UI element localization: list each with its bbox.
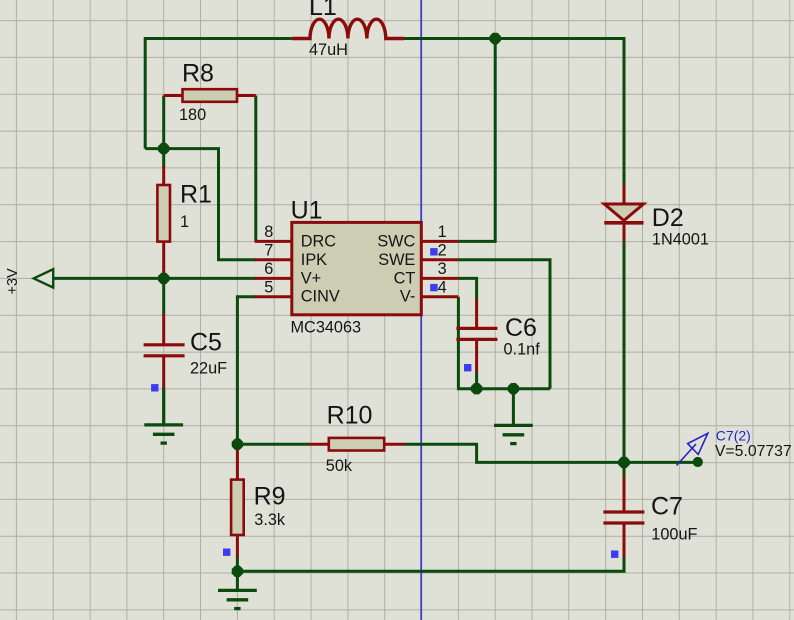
wire C5 top bbox=[162, 278, 165, 314]
junction node CINV/R10/R9 bbox=[232, 439, 243, 450]
svg-text:CINV: CINV bbox=[301, 288, 340, 306]
+3V power arrow bbox=[34, 269, 54, 287]
svg-text:V-: V- bbox=[400, 288, 415, 306]
wire +3V rail bbox=[53, 277, 257, 280]
ground under R9 bbox=[236, 571, 239, 590]
svg-text:180: 180 bbox=[179, 106, 206, 124]
junction node output/C7 bbox=[618, 457, 629, 468]
pin 6 V+ bbox=[255, 277, 292, 280]
svg-text:100uF: 100uF bbox=[651, 525, 697, 543]
wire D2 bottom to output junction bbox=[623, 241, 626, 463]
svg-text:C7(2): C7(2) bbox=[716, 428, 751, 444]
pin 5 CINV bbox=[255, 295, 292, 298]
junction node R9/bottom rail bbox=[232, 566, 243, 577]
wire R1 bottom to +3V junction bbox=[162, 266, 165, 278]
wire R8 left drop bbox=[162, 96, 165, 151]
resistor R1 bbox=[162, 166, 165, 185]
svg-text:C5: C5 bbox=[190, 329, 222, 357]
svg-text:V+: V+ bbox=[301, 269, 321, 287]
C7 marker bbox=[611, 551, 618, 558]
resistor R10 bbox=[309, 443, 329, 446]
wire R1 top stub bbox=[162, 149, 165, 167]
wire top rail right of L1 bbox=[404, 39, 624, 187]
wire pin3 to C6 bbox=[458, 278, 476, 300]
svg-text:C6: C6 bbox=[505, 314, 537, 342]
resistor R8 bbox=[164, 94, 183, 97]
svg-text:1N4001: 1N4001 bbox=[652, 231, 709, 249]
svg-text:R8: R8 bbox=[182, 60, 214, 88]
svg-text:CT: CT bbox=[394, 269, 416, 287]
wire pin1 to top junction bbox=[458, 39, 495, 242]
wire R8 right drop to pin 8 bbox=[254, 96, 257, 242]
wire junction row to pin7 elbow bbox=[145, 149, 256, 260]
svg-text:DRC: DRC bbox=[301, 233, 337, 251]
pin 4 V- bbox=[421, 295, 458, 298]
ground under C6 rail bbox=[512, 389, 515, 426]
voltage probe C7(2) bbox=[693, 457, 703, 467]
wire pin2 to ground rail bbox=[458, 260, 550, 389]
wire R10 left bbox=[237, 443, 309, 446]
svg-text:L1: L1 bbox=[309, 0, 337, 21]
wire CINV down column bbox=[237, 297, 256, 445]
inductor L1 bbox=[292, 19, 404, 38]
svg-text:1: 1 bbox=[180, 213, 189, 231]
ground under C5 bbox=[162, 388, 165, 425]
wire C6 ground rail bbox=[457, 387, 550, 390]
svg-text:5: 5 bbox=[264, 279, 273, 297]
svg-text:8: 8 bbox=[264, 223, 273, 241]
svg-text:R1: R1 bbox=[180, 180, 212, 208]
wire C6 bottom bbox=[475, 372, 478, 389]
svg-text:V=5.07737: V=5.07737 bbox=[715, 443, 792, 460]
junction node R8/R1 bbox=[158, 143, 169, 154]
svg-text:0.1nf: 0.1nf bbox=[504, 341, 541, 359]
wire C5 bottom to ground bbox=[162, 388, 165, 425]
svg-text:D2: D2 bbox=[652, 204, 684, 232]
junction node top rail/pin1 bbox=[490, 33, 501, 44]
svg-text:SWE: SWE bbox=[378, 251, 415, 269]
pin 7 IPK bbox=[255, 258, 292, 261]
wire pin4 down bbox=[457, 297, 460, 389]
svg-text:50k: 50k bbox=[326, 457, 353, 475]
junction node ground stem rail bbox=[508, 383, 519, 394]
diode D2 bbox=[623, 185, 626, 205]
svg-text:4: 4 bbox=[438, 279, 447, 297]
junction node C6/ground rail bbox=[471, 383, 482, 394]
capacitor C5 bbox=[162, 314, 165, 345]
wire bottom rail bbox=[237, 557, 624, 571]
pin 1 SWC bbox=[421, 240, 458, 243]
svg-text:2: 2 bbox=[438, 242, 447, 260]
svg-text:SWC: SWC bbox=[377, 233, 415, 251]
svg-text:1: 1 bbox=[438, 223, 447, 241]
pin 8 DRC bbox=[255, 240, 292, 243]
pin 2 SWE bbox=[421, 258, 458, 261]
wire C7 top bbox=[623, 462, 626, 477]
svg-text:R10: R10 bbox=[327, 401, 373, 429]
svg-text:U1: U1 bbox=[291, 196, 323, 224]
C5 marker bbox=[151, 384, 158, 391]
svg-text:7: 7 bbox=[264, 242, 273, 260]
IC U1 MC34063 bbox=[292, 222, 422, 314]
pin 3 CT bbox=[421, 277, 458, 280]
wire R10 right to output rail bbox=[404, 444, 698, 462]
svg-text:R9: R9 bbox=[254, 482, 286, 510]
svg-text:C7: C7 bbox=[651, 493, 683, 521]
blue divider line bbox=[420, 0, 422, 620]
wire R9 bottom junction bbox=[236, 556, 239, 571]
svg-text:MC34063: MC34063 bbox=[291, 318, 362, 336]
svg-text:3: 3 bbox=[438, 260, 447, 278]
svg-text:47uH: 47uH bbox=[309, 41, 348, 59]
R9 marker bbox=[223, 549, 230, 556]
capacitor C7 bbox=[623, 476, 626, 512]
svg-text:+3V: +3V bbox=[5, 268, 21, 295]
svg-text:3.3k: 3.3k bbox=[254, 511, 286, 529]
wire top rail left vertical bbox=[145, 39, 292, 149]
svg-text:22uF: 22uF bbox=[190, 359, 227, 377]
svg-text:6: 6 bbox=[264, 260, 273, 278]
junction node +3V/R1/C5 bbox=[158, 273, 169, 284]
C6 marker bbox=[464, 364, 471, 371]
resistor R9 bbox=[236, 446, 239, 480]
svg-text:IPK: IPK bbox=[301, 251, 327, 269]
capacitor C6 bbox=[475, 299, 478, 329]
